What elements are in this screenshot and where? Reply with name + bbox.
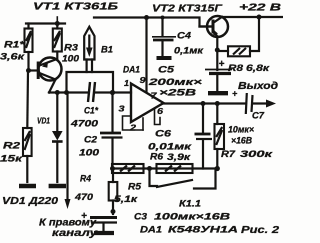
svg-text:0,1мк: 0,1мк [174,46,204,56]
ground under VD1 [49,184,66,189]
resistor R5 [112,164,144,173]
svg-text:С2: С2 [84,135,97,145]
wire signal node [49,90,131,95]
capacitor C1 [88,82,95,102]
svg-text:100мк×16В: 100мк×16В [154,212,230,223]
svg-text:VD1: VD1 [37,116,50,126]
svg-text:Рис. 2: Рис. 2 [241,224,279,236]
svg-text:С4: С4 [177,31,191,41]
op-amp DA1 [131,84,164,123]
resistor R1 [25,24,33,71]
svg-text:каналу: каналу [52,228,98,239]
wire +22V rail [222,15,282,20]
svg-text:Выход: Выход [238,81,278,92]
capacitor C6 [195,104,213,169]
wire top-left rail [26,17,65,26]
svg-text:6: 6 [157,107,164,116]
svg-text:R6: R6 [150,152,164,163]
resistor R7 [215,104,225,169]
ground under R2 [19,184,36,189]
svg-text:R4: R4 [80,174,92,185]
capacitor C3 [90,218,117,234]
svg-text:3,9к: 3,9к [167,152,191,163]
wire feedback node [110,166,220,171]
svg-text:DA1: DA1 [140,225,162,236]
wire output node [164,101,247,106]
microphone B1 [84,27,94,60]
svg-text:4700: 4700 [70,119,98,129]
svg-text:С3: С3 [134,212,148,223]
svg-text:С5: С5 [158,65,175,76]
svg-text:R1*: R1* [4,40,26,51]
svg-text:200мк×: 200мк× [147,77,202,88]
svg-text:470: 470 [74,192,94,203]
svg-text:+22 В: +22 В [239,2,282,14]
svg-text:+: + [81,211,87,222]
svg-text:В1: В1 [101,45,113,56]
svg-text:10мк×: 10мк× [228,125,255,135]
svg-text:100: 100 [62,54,80,65]
transistor VT1 [38,58,61,93]
resistor R6 [157,164,193,173]
svg-text:0,01мк: 0,01мк [148,142,192,152]
transistor VT2 [200,16,229,37]
svg-text:+: + [219,59,225,70]
svg-text:3: 3 [119,105,126,114]
capacitor C4 [152,18,176,59]
svg-text:100: 100 [79,148,99,158]
svg-text:R7: R7 [221,149,236,160]
svg-text:300к: 300к [240,149,274,160]
svg-text:VD1 Д220: VD1 Д220 [2,196,59,207]
resistor R3 [53,24,62,59]
capacitor C2 [100,93,123,169]
svg-text:С7: С7 [252,111,265,121]
wire top supply line [94,15,212,27]
resistor R4 [109,169,118,215]
svg-text:К правому: К правому [39,218,96,229]
svg-text:DA1: DA1 [123,65,140,76]
switch K1.1 [150,169,216,189]
diode VD1 [52,93,63,183]
svg-text:VT1 КТ361Б: VT1 КТ361Б [33,1,119,13]
svg-text:1: 1 [124,79,130,88]
svg-text:2: 2 [129,124,137,133]
svg-text:×25В: ×25В [159,88,196,99]
svg-text:К548УН1А: К548УН1А [168,225,238,236]
svg-text:R5: R5 [128,182,142,193]
wire VT2 emitter [215,37,220,71]
svg-text:9: 9 [140,76,147,85]
svg-text:6,8к: 6,8к [246,63,270,74]
wire VT1 base [26,68,38,73]
svg-text:С1*: С1* [84,106,98,116]
wire to right channel [65,93,71,210]
svg-text:15к: 15к [0,154,24,165]
svg-text:R2: R2 [3,141,21,152]
wire pin6 stub [155,109,161,125]
wire op-amp power pin9 [145,18,147,93]
svg-text:VT2 КТ315Г: VT2 КТ315Г [152,4,223,15]
svg-text:С6: С6 [155,129,172,139]
wire B1 tee [67,60,114,93]
svg-text:7: 7 [151,92,158,101]
svg-text:×16В: ×16В [231,136,252,146]
capacitor C5 [205,70,232,94]
svg-text:К1.1: К1.1 [179,199,201,210]
svg-text:3,6к: 3,6к [0,52,26,63]
wire inverting input [123,116,144,130]
resistor R2 [23,71,32,183]
resistor R8 [217,17,259,56]
svg-text:R3: R3 [64,43,79,54]
capacitor C7 [246,93,276,114]
